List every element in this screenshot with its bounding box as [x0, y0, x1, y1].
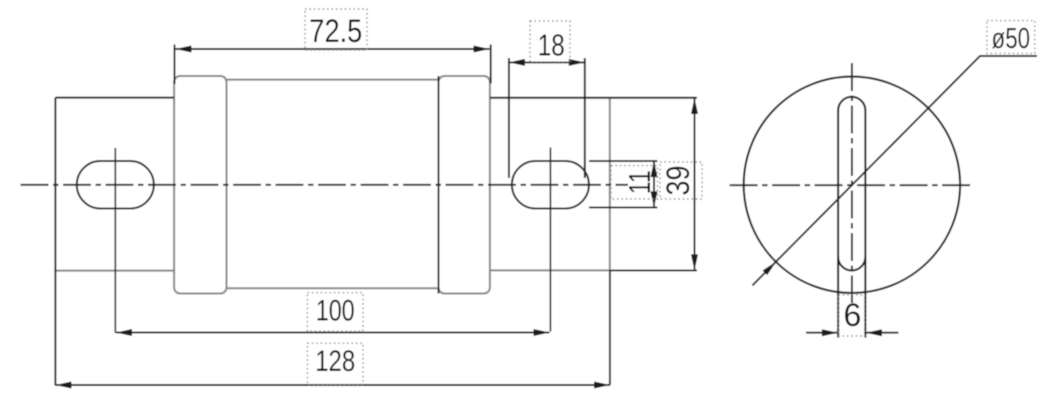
svg-text:39: 39 [660, 166, 696, 196]
svg-text:11: 11 [623, 170, 657, 194]
svg-text:6: 6 [844, 297, 862, 333]
svg-text:72.5: 72.5 [309, 13, 362, 49]
svg-text:100: 100 [316, 295, 355, 328]
svg-text:18: 18 [538, 28, 565, 63]
svg-text:128: 128 [315, 345, 355, 378]
svg-text:ø50: ø50 [992, 23, 1031, 55]
